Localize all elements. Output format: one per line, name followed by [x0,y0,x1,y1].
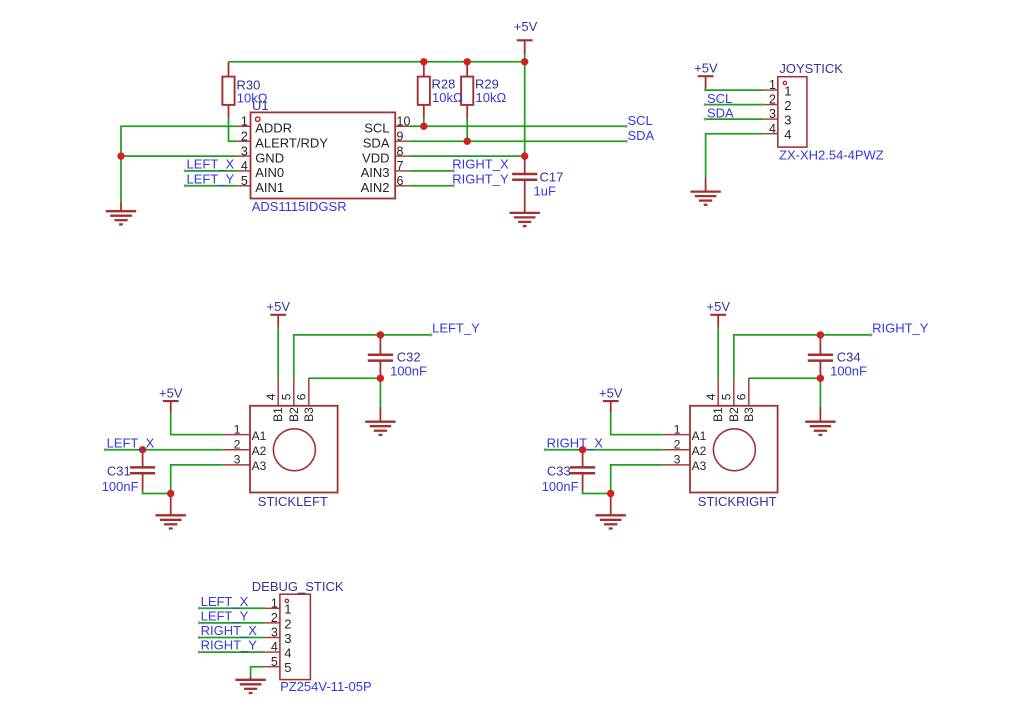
svg-text:LEFT_X: LEFT_X [201,594,249,609]
svg-text:ZX-XH2.54-4PWZ: ZX-XH2.54-4PWZ [779,148,884,163]
svg-text:AIN2: AIN2 [361,180,390,195]
svg-text:2: 2 [784,98,791,113]
svg-text:1: 1 [271,596,278,610]
svg-text:A3: A3 [692,459,707,473]
svg-text:STICKRIGHT: STICKRIGHT [698,494,777,509]
svg-text:1: 1 [284,602,291,617]
svg-text:6: 6 [294,393,308,400]
svg-text:+5V: +5V [267,299,291,314]
svg-text:ADDR: ADDR [255,121,292,136]
svg-text:+5V: +5V [514,19,538,34]
svg-text:SDA: SDA [707,106,734,121]
svg-text:1: 1 [234,422,241,436]
svg-text:C32: C32 [397,349,421,364]
svg-text:1: 1 [241,115,248,129]
svg-text:C34: C34 [837,349,861,364]
svg-text:LEFT_X: LEFT_X [107,435,155,450]
svg-text:DEBUG_STICK: DEBUG_STICK [252,579,344,594]
svg-text:RIGHT_Y: RIGHT_Y [872,321,929,336]
svg-text:5: 5 [241,174,248,188]
svg-text:SCL: SCL [364,121,389,136]
svg-text:B1: B1 [271,407,285,422]
svg-text:PZ254V-11-05P: PZ254V-11-05P [280,679,372,694]
svg-text:AIN0: AIN0 [255,165,284,180]
svg-text:RIGHT_Y: RIGHT_Y [452,171,509,186]
svg-text:RIGHT_X: RIGHT_X [452,156,509,171]
svg-text:6: 6 [397,174,404,188]
svg-text:3: 3 [271,626,278,640]
svg-text:AIN3: AIN3 [361,165,390,180]
svg-text:LEFT_Y: LEFT_Y [201,608,249,623]
svg-text:4: 4 [264,393,278,400]
svg-text:RIGHT_X: RIGHT_X [201,623,258,638]
svg-text:4: 4 [769,122,776,136]
svg-text:2: 2 [769,93,776,107]
svg-text:10kΩ: 10kΩ [432,90,463,105]
svg-text:LEFT_Y: LEFT_Y [432,321,480,336]
svg-text:1: 1 [674,422,681,436]
svg-text:GND: GND [255,150,284,165]
svg-text:7: 7 [397,159,404,173]
svg-text:2: 2 [234,438,241,452]
svg-text:SDA: SDA [363,135,390,150]
svg-text:RIGHT_Y: RIGHT_Y [201,638,258,653]
svg-text:2: 2 [674,438,681,452]
svg-text:A3: A3 [252,459,267,473]
svg-text:3: 3 [234,453,241,467]
svg-text:100nF: 100nF [102,479,139,494]
svg-text:100nF: 100nF [542,479,579,494]
svg-text:3: 3 [674,453,681,467]
svg-text:SDA: SDA [628,128,655,143]
svg-text:100nF: 100nF [390,364,427,379]
svg-text:100nF: 100nF [830,364,867,379]
svg-text:1: 1 [784,84,791,99]
svg-text:RIGHT_X: RIGHT_X [547,435,604,450]
svg-text:SCL: SCL [707,91,732,106]
svg-text:+5V: +5V [159,386,183,401]
svg-text:5: 5 [284,660,291,675]
svg-text:1uF: 1uF [534,184,556,199]
svg-text:5: 5 [271,655,278,669]
svg-text:STICKLEFT: STICKLEFT [258,494,328,509]
svg-text:B2: B2 [727,407,741,422]
svg-text:VDD: VDD [362,150,389,165]
svg-text:B1: B1 [711,407,725,422]
svg-text:3: 3 [284,631,291,646]
svg-text:U1: U1 [252,98,269,113]
svg-text:10kΩ: 10kΩ [476,90,507,105]
svg-text:1: 1 [769,78,776,92]
svg-text:A1: A1 [252,429,267,443]
svg-text:8: 8 [397,144,404,158]
svg-text:C33: C33 [547,464,571,479]
svg-text:A2: A2 [252,444,267,458]
svg-text:LEFT_Y: LEFT_Y [187,171,235,186]
svg-text:4: 4 [241,159,248,173]
svg-text:5: 5 [279,393,293,400]
svg-text:4: 4 [271,640,278,654]
svg-text:4: 4 [704,393,718,400]
svg-text:+5V: +5V [694,61,718,76]
svg-text:3: 3 [241,144,248,158]
svg-text:+5V: +5V [599,386,623,401]
svg-text:B2: B2 [287,407,301,422]
svg-text:+5V: +5V [707,299,731,314]
svg-text:4: 4 [284,646,291,661]
svg-text:2: 2 [284,616,291,631]
svg-text:B3: B3 [302,407,316,422]
svg-text:ALERT/RDY: ALERT/RDY [255,135,328,150]
svg-text:4: 4 [784,127,791,142]
svg-text:A2: A2 [692,444,707,458]
svg-text:2: 2 [271,611,278,625]
svg-text:C31: C31 [107,464,131,479]
svg-text:3: 3 [784,113,791,128]
svg-text:JOYSTICK: JOYSTICK [779,61,843,76]
svg-text:2: 2 [241,129,248,143]
svg-text:9: 9 [397,129,404,143]
svg-text:3: 3 [769,107,776,121]
svg-text:A1: A1 [692,429,707,443]
svg-text:C17: C17 [540,170,564,185]
svg-text:AIN1: AIN1 [255,180,284,195]
svg-text:SCL: SCL [628,113,653,128]
svg-text:B3: B3 [742,407,756,422]
svg-text:6: 6 [734,393,748,400]
svg-text:LEFT_X: LEFT_X [187,156,235,171]
svg-text:ADS1115IDGSR: ADS1115IDGSR [252,199,347,214]
svg-text:10: 10 [397,115,411,129]
svg-text:5: 5 [719,393,733,400]
